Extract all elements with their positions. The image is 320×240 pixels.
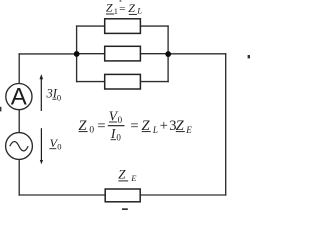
label Z1 = ZL above top box (106, 0, 142, 16)
wire stub top right (140, 25, 168, 27)
label V0 (49, 136, 61, 152)
svg-text:=: = (119, 3, 125, 15)
wire left rail top (18, 54, 20, 84)
node right junction (165, 51, 171, 57)
svg-text:E: E (185, 125, 192, 135)
svg-text:Z: Z (106, 0, 113, 14)
wire left rail bottom (18, 159, 20, 195)
impedance box Z1 top branch (105, 19, 141, 34)
ammeter A1 circle (6, 84, 32, 110)
wire left rail between meter and source (18, 110, 20, 133)
voltage arrow V0 (head at bottom) (40, 128, 43, 164)
label 3I0 (46, 87, 62, 103)
label ZE above bottom box (118, 167, 137, 184)
svg-text:0: 0 (57, 92, 61, 102)
wire bottom left (19, 194, 105, 196)
svg-text:+: + (160, 118, 168, 134)
source V0 sine wave (10, 142, 28, 151)
svg-text:L: L (136, 6, 142, 16)
svg-text:1: 1 (114, 7, 118, 16)
svg-text:=: = (130, 118, 138, 134)
svg-text:Z: Z (128, 1, 135, 15)
wire stub middle right (140, 53, 168, 55)
svg-text:A: A (11, 84, 27, 111)
svg-text:=: = (97, 118, 105, 134)
impedance box bottom branch (105, 74, 141, 89)
wire left bus (76, 26, 78, 82)
cropped text fragment left edge (0, 107, 1, 112)
svg-text:L: L (152, 125, 158, 135)
wire stub top left (77, 25, 105, 27)
impedance box middle branch (105, 46, 141, 61)
source V0 circle (6, 133, 33, 160)
cropped text fragment right edge (248, 55, 250, 58)
svg-text:0: 0 (116, 133, 121, 143)
wire right rail (225, 54, 227, 195)
impedance box ZE earth return (105, 189, 140, 202)
node left junction (74, 51, 80, 57)
wire top right horizontal (168, 53, 226, 55)
svg-text:0: 0 (57, 142, 61, 152)
equation Z0 = V0/I0 = ZL + 3ZE (78, 108, 192, 142)
wire stub bottom left (77, 81, 105, 83)
wire stub bottom right (140, 81, 168, 83)
cropped text fragment bottom edge (122, 208, 128, 210)
svg-text:0: 0 (89, 125, 94, 135)
current arrow 3I0 (40, 74, 44, 111)
wire left horizontal to node (19, 53, 76, 55)
svg-text:E: E (130, 173, 137, 183)
svg-text:Z: Z (118, 167, 126, 182)
svg-text:0: 0 (118, 115, 123, 125)
wire right bus (167, 26, 169, 82)
cropped text fragment top edge (120, 0, 122, 2)
wire stub middle left (77, 53, 105, 55)
wire bottom right (140, 194, 226, 196)
